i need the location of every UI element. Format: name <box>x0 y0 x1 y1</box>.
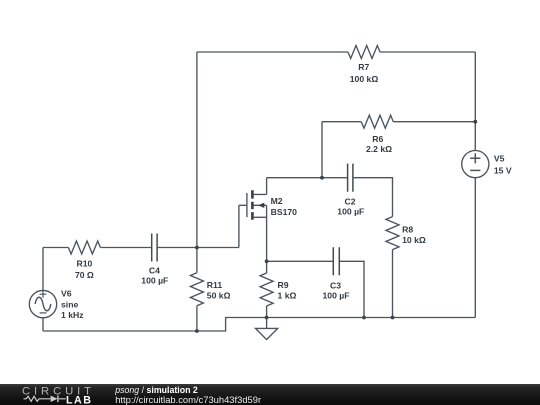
wire C2 right lead <box>353 178 393 217</box>
capacitor C3 <box>333 247 339 275</box>
svg-text:R11: R11 <box>207 280 223 290</box>
wire right rail upper <box>474 52 476 151</box>
svg-text:BS170: BS170 <box>271 207 298 217</box>
wire left rail lower <box>196 306 198 331</box>
wire left rail upper <box>196 52 198 273</box>
capacitor C4 <box>152 234 157 262</box>
voltage source V6 <box>29 290 56 317</box>
svg-text:V5: V5 <box>494 154 505 164</box>
wire R6 left vertical to drain node <box>321 122 323 178</box>
node junction C3/ground rail <box>362 316 366 320</box>
node junction C4/R11/gate <box>195 246 199 250</box>
resistor R6 <box>361 115 393 128</box>
svg-text:15 V: 15 V <box>494 165 512 175</box>
wire bottom rail left <box>43 318 475 332</box>
resistor R11 <box>190 273 203 306</box>
svg-text:R9: R9 <box>278 280 289 290</box>
wire R6 left lead <box>322 121 361 123</box>
resistor R7 <box>348 46 380 59</box>
footer bar <box>0 384 540 405</box>
svg-text:1 kΩ: 1 kΩ <box>278 291 297 301</box>
svg-text:sine: sine <box>61 300 78 310</box>
wire gate lead <box>239 204 247 206</box>
svg-text:R6: R6 <box>372 134 383 144</box>
wire C3 right lead <box>339 261 364 317</box>
node junction R8/ground rail <box>391 316 395 320</box>
node junction R6/V5 rail <box>473 120 477 124</box>
CircuitLab logo <box>0 384 110 405</box>
svg-text:10 kΩ: 10 kΩ <box>402 235 426 245</box>
svg-text:100 µF: 100 µF <box>337 207 364 217</box>
resistor R9 <box>260 273 273 306</box>
wire gate net vertical <box>238 205 240 247</box>
svg-text:R10: R10 <box>76 259 92 269</box>
capacitor C2 <box>348 164 353 192</box>
wire V6 bottom lead <box>42 318 44 331</box>
svg-text:1 kHz: 1 kHz <box>61 310 84 320</box>
wire V6 to R10 <box>43 247 68 249</box>
svg-text:R7: R7 <box>358 62 369 72</box>
footer title text <box>115 385 198 395</box>
transistor M2 <box>247 178 267 273</box>
svg-text:100 kΩ: 100 kΩ <box>350 74 379 84</box>
svg-text:R8: R8 <box>402 225 413 235</box>
voltage source V5 <box>462 151 489 178</box>
ground <box>256 318 278 340</box>
wire right rail lower <box>474 178 476 318</box>
wire R9 bottom lead <box>266 306 268 318</box>
svg-text:100 µF: 100 µF <box>322 291 349 301</box>
node junction bottom left rail <box>195 329 199 333</box>
wire top rail left of R7 <box>197 51 348 53</box>
svg-text:LAB: LAB <box>66 395 92 405</box>
svg-text:100 µF: 100 µF <box>141 275 168 285</box>
node junction drain/R6/C2 <box>320 176 324 180</box>
svg-text:C2: C2 <box>344 197 355 207</box>
wire C4 to left rail junction <box>157 247 197 249</box>
wire top rail right of R7 <box>380 51 475 53</box>
wire R10 to C4 <box>100 247 151 249</box>
svg-text:V6: V6 <box>61 289 72 299</box>
node junction R9/ground <box>265 316 269 320</box>
wire source node to C3 <box>267 260 334 262</box>
resistor R8 <box>386 217 399 250</box>
svg-text:70 Ω: 70 Ω <box>75 270 94 280</box>
wire R6 right lead <box>393 121 475 123</box>
wire drain node to C2 <box>267 177 348 179</box>
svg-text:50 kΩ: 50 kΩ <box>207 291 231 301</box>
resistor R10 <box>68 241 100 254</box>
wire R8 bottom lead <box>392 250 394 318</box>
node junction source/R9/C3 <box>265 259 269 263</box>
svg-text:C4: C4 <box>149 265 160 275</box>
svg-text:M2: M2 <box>271 196 283 206</box>
wire gate net horizontal from left rail <box>197 247 239 249</box>
svg-text:2.2 kΩ: 2.2 kΩ <box>366 144 392 154</box>
wire V6 top lead <box>42 248 44 291</box>
svg-text:C3: C3 <box>330 281 341 291</box>
